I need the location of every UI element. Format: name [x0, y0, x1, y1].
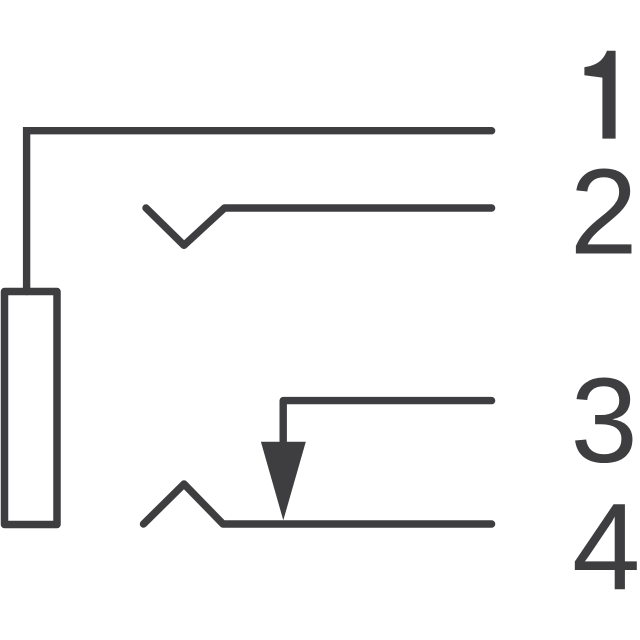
wire pin 4 (spring contact lead): [144, 484, 492, 524]
wire pin 2 (contact with check-mark spring): [146, 208, 492, 245]
svg-text:3: 3: [571, 352, 638, 488]
wire pin 3 (switch lead with corner): [283, 401, 491, 441]
svg-text:4: 4: [572, 479, 640, 616]
jack body (sleeve barrel): [5, 292, 58, 525]
svg-text:2: 2: [570, 144, 638, 280]
pin label 1: [584, 51, 615, 139]
arrow head (switch actuator): [261, 442, 306, 521]
wire pin 1 (tip contact lead): [27, 131, 492, 292]
